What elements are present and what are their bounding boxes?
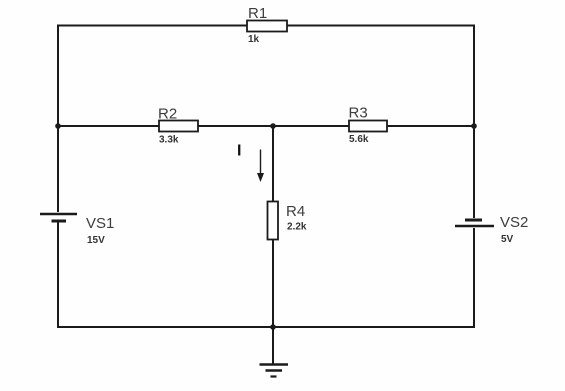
resistor R3	[349, 121, 387, 132]
resistor R2	[159, 121, 198, 132]
svg-text:R2: R2	[158, 106, 177, 123]
wire middle horizontal net R2-R3	[58, 125, 474, 127]
svg-text:2.2k: 2.2k	[287, 222, 307, 233]
wire center branch through R4 to ground	[272, 126, 274, 364]
ground	[260, 365, 289, 377]
wire right branch through VS2	[473, 126, 475, 328]
svg-text:15V: 15V	[87, 235, 105, 246]
svg-text:R4: R4	[286, 203, 305, 220]
svg-text:3.3k: 3.3k	[159, 135, 179, 146]
wire left branch through VS1	[57, 126, 59, 328]
node junction left (middle net / VS1 branch)	[55, 123, 61, 129]
wire top net from VS1 top over R1 to VS2 top	[58, 26, 474, 127]
svg-text:R3: R3	[349, 105, 368, 122]
node junction bottom (ground net)	[270, 324, 276, 330]
wire bottom net	[58, 326, 474, 328]
svg-text:R1: R1	[248, 5, 267, 22]
node junction right (middle net / VS2 branch)	[471, 123, 477, 129]
svg-text:VS1: VS1	[86, 215, 114, 232]
current direction arrow	[257, 150, 264, 183]
svg-text:VS2: VS2	[500, 214, 528, 231]
resistor R1	[247, 21, 287, 32]
svg-text:5.6k: 5.6k	[349, 134, 369, 145]
battery VS1	[40, 212, 77, 222]
svg-text:I: I	[237, 143, 241, 160]
resistor R4	[268, 202, 279, 240]
node junction center (R2/R3/R4)	[270, 123, 276, 129]
svg-text:5V: 5V	[501, 234, 514, 245]
battery VS2	[455, 218, 494, 228]
svg-text:1k: 1k	[248, 34, 260, 45]
